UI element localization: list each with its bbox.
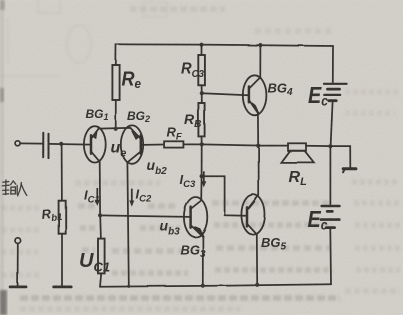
wire input to BG1 base [49,143,91,146]
terminal input return [15,238,21,244]
current arrow IC1 [95,189,99,205]
wire BG1 collector down-lead [99,162,101,216]
wire Rb1 bottom lead [61,234,63,286]
current arrow IC3 [202,172,206,186]
transistor BG5 [241,195,265,235]
transistor BG3 [184,197,207,237]
ink layer [10,43,356,288]
wire joint emitter bus [98,127,130,130]
wire speaker to battery mid [306,145,330,147]
battery Ec1 [324,84,347,101]
wire Re bottom lead to emitter node [115,100,117,129]
wire RB bottom lead [201,136,203,144]
node rail-BG2 junction dot [127,285,130,288]
resistor RC3 [198,55,205,85]
node BG4 base junction dot [200,91,204,95]
wire BG5 collector lead [256,234,258,284]
node RF-RB junction dot [200,142,204,146]
wire RF to node [184,143,202,145]
wire BG4 base lead [202,93,248,95]
resistor Re [112,65,119,100]
capacitor input coupling [43,133,48,158]
wire return terminal lead [17,244,19,286]
transistor BG4 [243,75,267,115]
bleed-through layer [0,0,167,76]
ground bar right [343,167,356,170]
wire Ec2 bottom lead [329,229,332,285]
wire output bus left [202,144,258,145]
transistor BG2 [121,125,143,163]
wire BG5 base link [202,176,246,216]
edge shading [0,0,4,315]
node BG1 collector junction dot [98,213,102,217]
wire bottom rail [100,284,331,287]
resistor RF [164,141,183,147]
battery Ec2 [321,206,340,228]
node input junction dot [59,142,63,146]
resistor RB [198,103,204,136]
wire BG4 collector lead [259,45,261,77]
label input chinese [2,180,27,196]
transistor BG1 [84,126,106,162]
wire RC3 to RB [201,85,203,103]
wire Ec2 top lead [329,146,331,204]
node output junction dot [256,144,260,148]
wire UC1 top lead [99,215,102,238]
terminal input [15,141,20,146]
node rail-BG4 junction dot [258,43,262,47]
wire Rb1 top lead [61,144,63,201]
wire output bus to speaker [258,145,288,147]
node rail-BG5 junction dot [255,283,259,287]
node rail-RC3 junction dot [199,43,203,47]
wire Ec1 top lead [332,46,334,82]
wire BG3 emitter lead [202,237,204,286]
wire BG5 emitter lead [258,146,260,196]
wire RC3 top lead [201,45,203,55]
resistor Rb1 [59,201,66,234]
wire BG2 collector down-lead [127,163,128,287]
wire BG3 collector lead [200,176,202,200]
wire Re top lead [115,44,117,65]
wire IC3 branch down [201,144,203,176]
node rail-BG3 junction dot [201,284,205,288]
node BG3 collector junction dot [200,174,204,178]
node ue junction dot [114,127,118,131]
wire top supply rail [116,44,333,46]
wire BG4 emitter lead [257,113,259,145]
ground bar under Rb1 [54,285,71,288]
wire UC1 bottom lead [100,273,101,286]
wire mid to ground [330,146,350,167]
wire terminal to capacitor [20,142,42,144]
wire Ec1 bottom lead [331,102,333,146]
ground bar under return terminal [10,285,26,288]
speaker RL [281,143,314,162]
current arrow IC2 [130,189,134,205]
resistor UC1 [98,239,105,274]
node battery mid junction dot [328,144,332,148]
wire BG2 base to RF [142,144,164,146]
wire ub3 bus to BG3 base [100,215,190,217]
